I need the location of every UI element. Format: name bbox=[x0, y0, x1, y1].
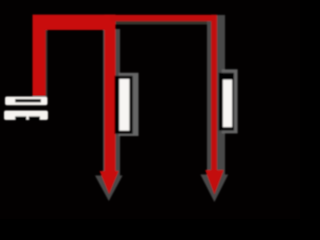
current arrow I2 (thin red): top horizontal run bbox=[110, 15, 217, 21]
wire (gray) right branch corner bbox=[207, 15, 225, 31]
arrowhead (red) middle branch bbox=[100, 171, 119, 194]
battery B1 lower plate (white bar) bbox=[4, 111, 48, 121]
lamp R2 white body bbox=[223, 80, 232, 128]
wire (gray) middle branch vertical bbox=[103, 29, 120, 177]
current arrow I1 (thick red): top horizontal run bbox=[33, 15, 116, 30]
current arrow I1 (thick red): battery riser bbox=[33, 15, 46, 96]
lamp R2 outer gray outline bbox=[222, 69, 238, 133]
wire (gray) battery riser edge bbox=[44, 20, 48, 96]
arrowhead (gray) right branch bbox=[200, 175, 228, 203]
lamp R1 outer gray outline bbox=[119, 73, 139, 136]
current arrow I1 (thick red): middle branch vertical run bbox=[105, 15, 116, 173]
lamp R2 black frame bbox=[219, 73, 234, 131]
battery B1 upper plate (white bar with black stripe) bbox=[5, 97, 48, 106]
current arrow I2 (thin red): right branch vertical run bbox=[211, 15, 217, 172]
battery B1 dash 2 in lower plate bbox=[29, 116, 40, 120]
arrowhead (red) right branch bbox=[205, 170, 224, 195]
battery B1 stripe in upper plate bbox=[15, 99, 41, 102]
battery B1 dash 1 in lower plate bbox=[15, 116, 26, 120]
lamp R1 black frame bbox=[115, 76, 133, 134]
arrowhead (gray) middle branch bbox=[95, 176, 123, 202]
wire (gray) right branch vertical bbox=[207, 18, 225, 176]
lamp R1 white body bbox=[119, 79, 129, 131]
wire (gray) top horizontal segment to right branch bbox=[112, 15, 225, 25]
